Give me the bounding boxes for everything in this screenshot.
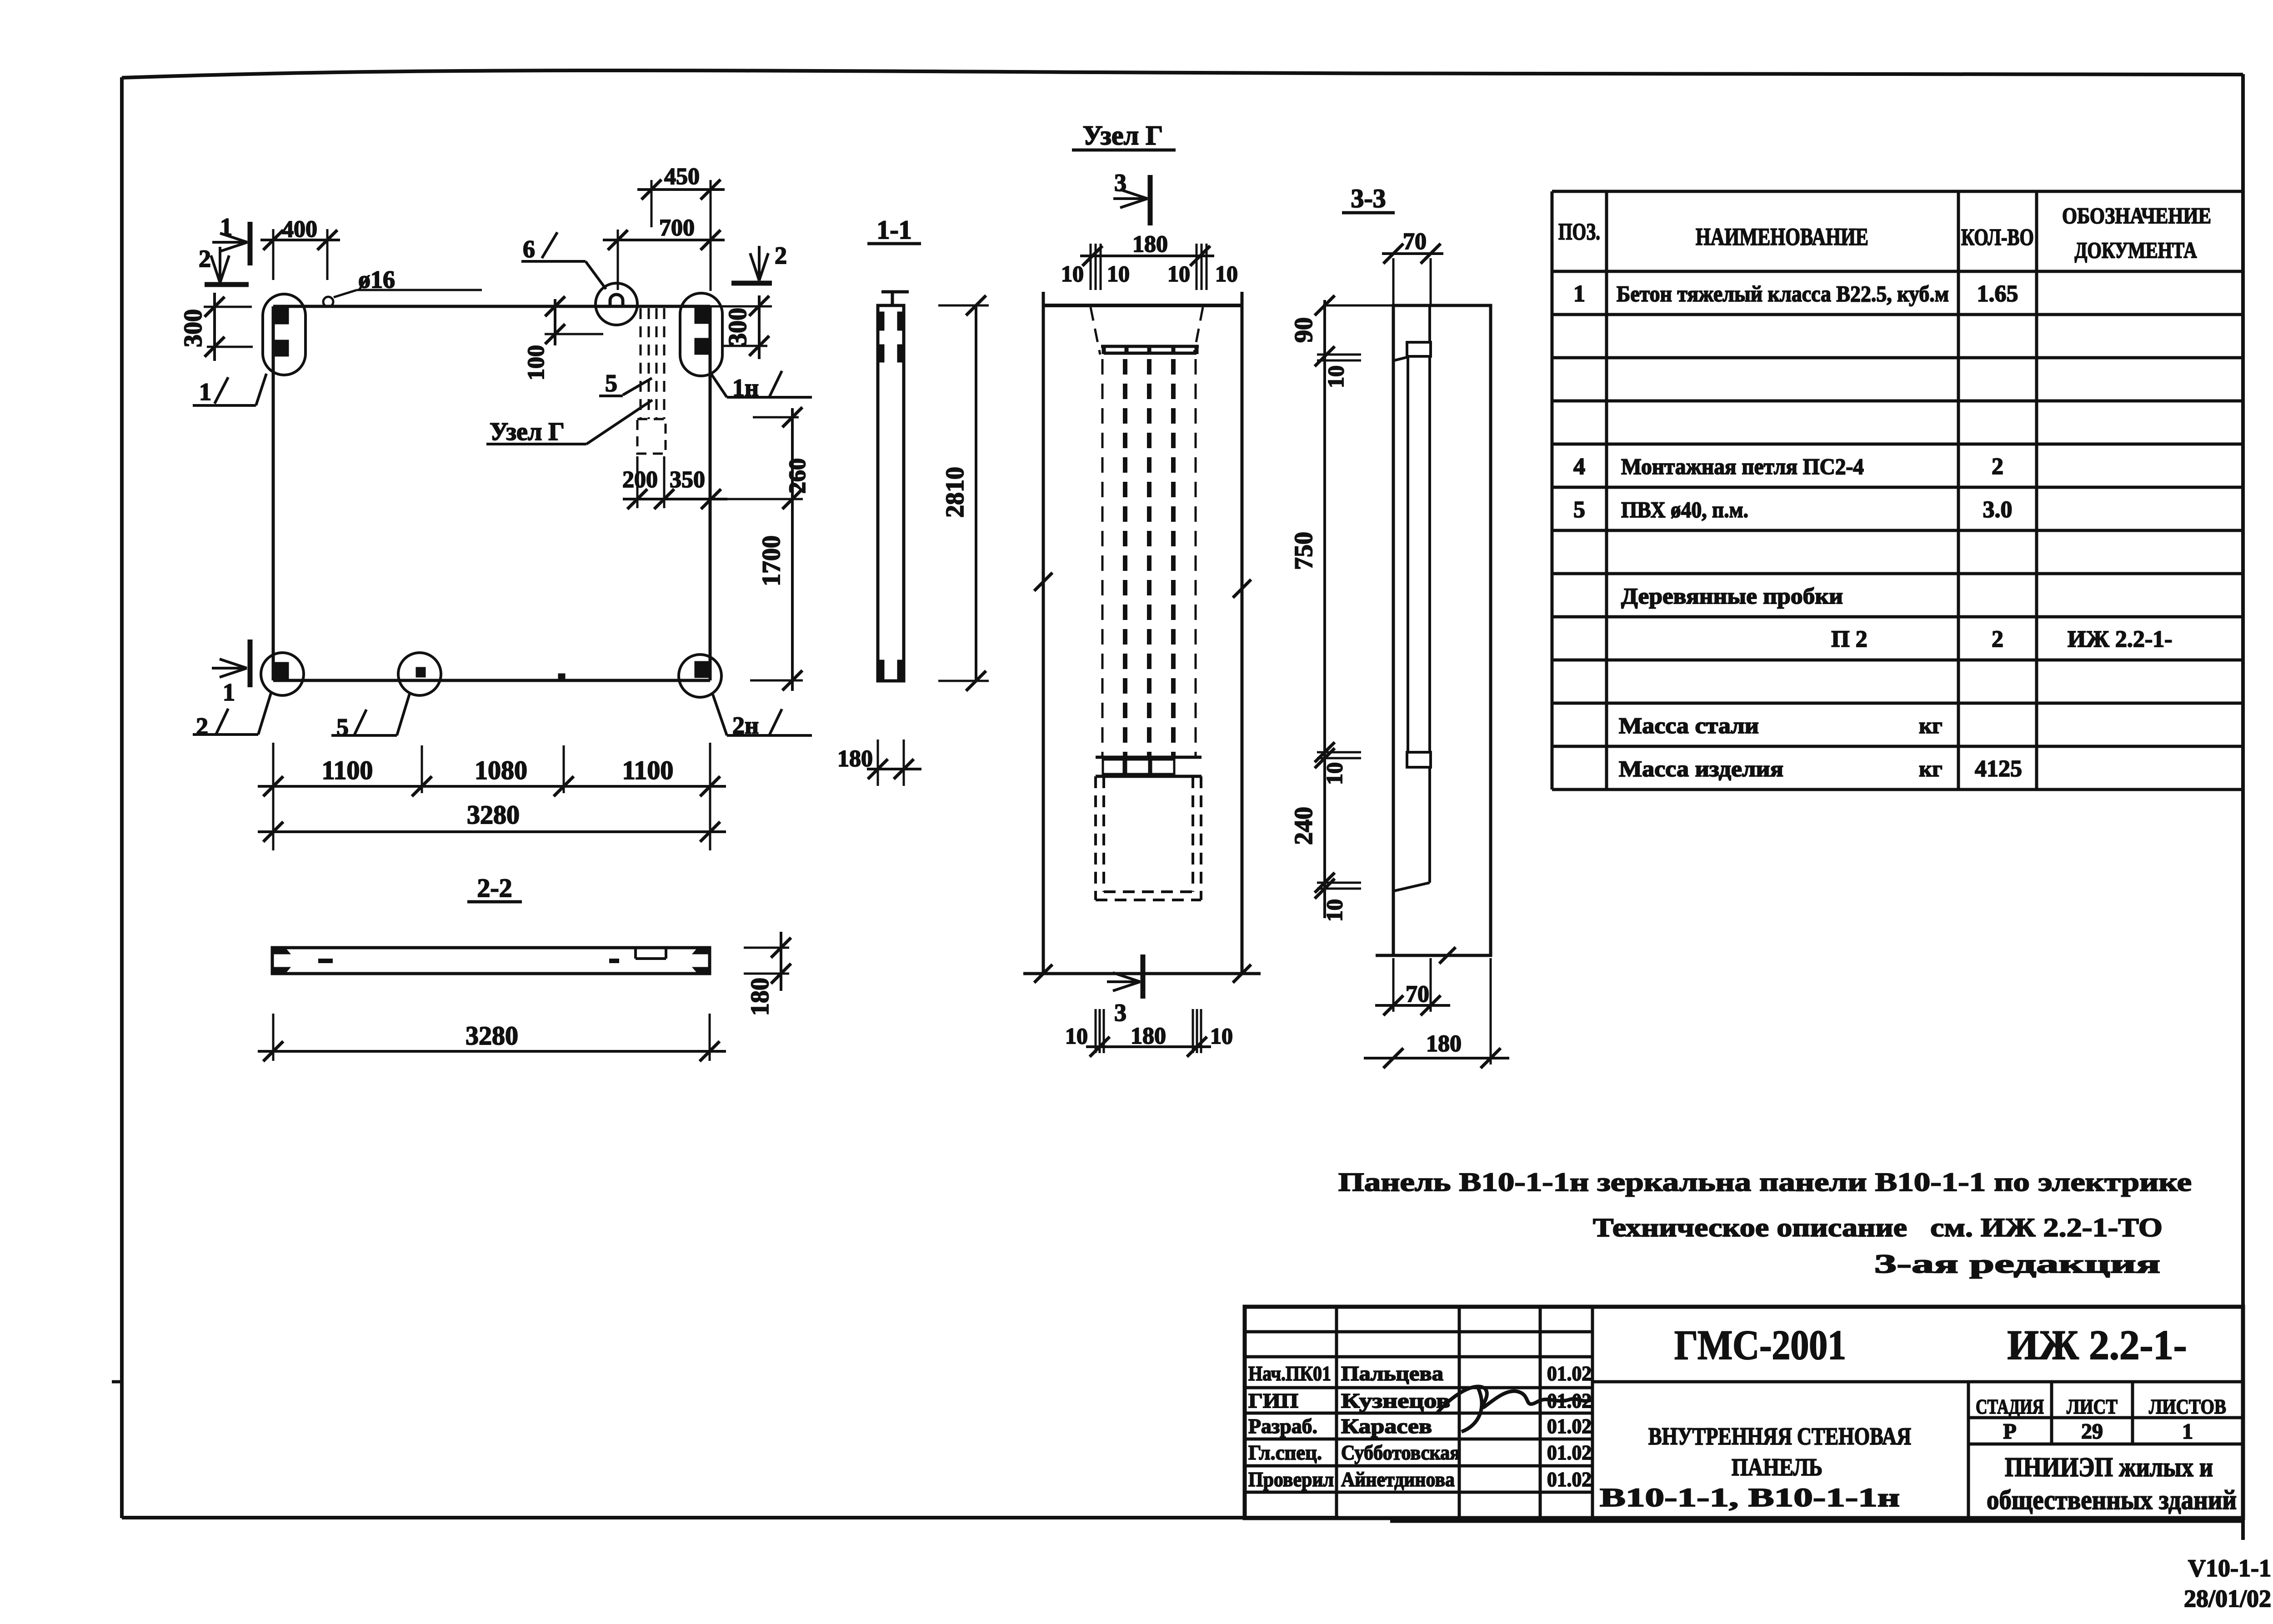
svg-text:Субботовская: Субботовская xyxy=(1341,1441,1460,1464)
svg-text:2: 2 xyxy=(199,245,211,272)
svg-text:750: 750 xyxy=(1290,532,1318,570)
svg-text:3-3: 3-3 xyxy=(1351,184,1386,213)
svg-text:2: 2 xyxy=(1992,454,2003,480)
svg-text:Бетон тяжелый класса В22.5, ку: Бетон тяжелый класса В22.5, куб.м xyxy=(1617,281,1949,306)
svg-text:10: 10 xyxy=(1065,1023,1088,1049)
svg-text:240: 240 xyxy=(1290,807,1318,845)
svg-text:180: 180 xyxy=(837,746,873,772)
svg-text:Проверил: Проверил xyxy=(1248,1468,1334,1491)
svg-text:01.02: 01.02 xyxy=(1547,1468,1592,1491)
svg-text:260: 260 xyxy=(785,458,811,494)
svg-text:28/01/02: 28/01/02 xyxy=(2184,1585,2271,1612)
svg-text:4125: 4125 xyxy=(1975,756,2022,782)
svg-text:3.0: 3.0 xyxy=(1983,497,2013,523)
svg-text:180: 180 xyxy=(1131,1023,1166,1049)
svg-text:10: 10 xyxy=(1210,1023,1233,1049)
svg-text:1-1: 1-1 xyxy=(876,215,911,245)
svg-text:180: 180 xyxy=(746,978,774,1016)
svg-text:ЛИСТОВ: ЛИСТОВ xyxy=(2149,1395,2226,1418)
svg-text:1080: 1080 xyxy=(475,755,527,785)
svg-text:Карасев: Карасев xyxy=(1341,1414,1432,1438)
svg-text:6: 6 xyxy=(523,235,535,263)
svg-text:01.02: 01.02 xyxy=(1547,1414,1592,1438)
svg-text:ЛИСТ: ЛИСТ xyxy=(2067,1395,2118,1418)
svg-text:1700: 1700 xyxy=(757,535,786,586)
svg-text:01.02: 01.02 xyxy=(1547,1441,1592,1464)
svg-text:2-2: 2-2 xyxy=(477,873,512,903)
svg-text:1: 1 xyxy=(199,378,211,405)
svg-text:Техническое описание см. ИЖ: Техническое описание см. ИЖ 2.2-1-ТО xyxy=(1593,1213,2163,1242)
svg-text:ИЖ 2.2-1-: ИЖ 2.2-1- xyxy=(2068,626,2173,652)
svg-text:Р: Р xyxy=(2003,1419,2016,1444)
svg-text:кг: кг xyxy=(1919,713,1943,738)
svg-text:10: 10 xyxy=(1061,261,1084,286)
svg-text:1: 1 xyxy=(1573,281,1585,307)
svg-text:Узел Г: Узел Г xyxy=(1083,120,1163,150)
svg-text:1: 1 xyxy=(220,213,232,240)
svg-text:10: 10 xyxy=(1167,261,1190,286)
svg-text:10: 10 xyxy=(1215,261,1238,286)
svg-text:СТАДИЯ: СТАДИЯ xyxy=(1976,1395,2044,1418)
svg-text:450: 450 xyxy=(664,164,700,190)
svg-text:01.02: 01.02 xyxy=(1547,1362,1592,1385)
svg-text:Масса изделия: Масса изделия xyxy=(1619,756,1783,781)
svg-text:1: 1 xyxy=(223,679,235,706)
svg-text:10: 10 xyxy=(1322,762,1347,785)
svg-text:1100: 1100 xyxy=(622,755,674,785)
svg-text:ГИП: ГИП xyxy=(1248,1389,1298,1412)
svg-text:4: 4 xyxy=(1573,454,1585,480)
svg-text:300: 300 xyxy=(724,308,752,346)
svg-text:ВНУТРЕННЯЯ СТЕНОВАЯ: ВНУТРЕННЯЯ СТЕНОВАЯ xyxy=(1648,1423,1911,1450)
svg-text:ПАНЕЛЬ: ПАНЕЛЬ xyxy=(1732,1454,1822,1481)
svg-text:Нач.ПК01: Нач.ПК01 xyxy=(1248,1362,1331,1385)
svg-text:ПНИИЭП жилых и: ПНИИЭП жилых и xyxy=(2005,1452,2213,1482)
svg-text:ПВХ ø40, п.м.: ПВХ ø40, п.м. xyxy=(1621,497,1748,522)
svg-text:общественных зданий: общественных зданий xyxy=(1987,1485,2237,1515)
svg-text:5: 5 xyxy=(1573,497,1585,523)
svg-text:10: 10 xyxy=(1323,365,1348,388)
svg-text:10: 10 xyxy=(1107,261,1130,286)
svg-text:70: 70 xyxy=(1406,981,1429,1007)
svg-text:350: 350 xyxy=(670,467,705,493)
svg-text:ДОКУМЕНТА: ДОКУМЕНТА xyxy=(2075,237,2197,263)
svg-text:Гл.спец.: Гл.спец. xyxy=(1248,1441,1322,1464)
svg-text:29: 29 xyxy=(2081,1419,2103,1444)
svg-text:V10-1-1: V10-1-1 xyxy=(2188,1554,2271,1582)
svg-text:ø16: ø16 xyxy=(358,266,395,293)
svg-text:ГМС-2001: ГМС-2001 xyxy=(1674,1322,1846,1368)
svg-text:Кузнецов: Кузнецов xyxy=(1341,1389,1450,1412)
svg-text:1: 1 xyxy=(2182,1419,2193,1444)
svg-text:Разраб.: Разраб. xyxy=(1248,1414,1317,1438)
svg-text:5: 5 xyxy=(605,370,617,397)
svg-text:400: 400 xyxy=(282,216,317,242)
svg-text:ПОЗ.: ПОЗ. xyxy=(1558,219,1600,245)
svg-text:3280: 3280 xyxy=(466,1021,518,1050)
svg-text:П 2: П 2 xyxy=(1831,626,1867,652)
svg-text:180: 180 xyxy=(1426,1031,1462,1057)
svg-text:кг: кг xyxy=(1919,756,1943,781)
svg-text:2: 2 xyxy=(775,242,787,269)
svg-text:Айнетдинова: Айнетдинова xyxy=(1341,1468,1455,1491)
svg-text:КОЛ-ВО: КОЛ-ВО xyxy=(1961,225,2034,250)
svg-text:700: 700 xyxy=(659,215,695,241)
svg-text:1.65: 1.65 xyxy=(1977,281,2018,307)
svg-text:ИЖ 2.2-1-: ИЖ 2.2-1- xyxy=(2008,1322,2187,1368)
svg-text:300: 300 xyxy=(179,309,207,347)
svg-text:ОБОЗНАЧЕНИЕ: ОБОЗНАЧЕНИЕ xyxy=(2062,203,2211,228)
svg-text:3-ая редакция: 3-ая редакция xyxy=(1874,1249,2160,1279)
svg-text:Узел Г: Узел Г xyxy=(490,418,565,446)
svg-text:3: 3 xyxy=(1114,999,1126,1026)
svg-text:Деревянные пробки: Деревянные пробки xyxy=(1621,583,1843,609)
svg-text:Масса стали: Масса стали xyxy=(1619,713,1759,738)
svg-text:3: 3 xyxy=(1114,169,1126,196)
svg-text:В10-1-1, В10-1-1н: В10-1-1, В10-1-1н xyxy=(1600,1483,1900,1512)
svg-text:70: 70 xyxy=(1403,229,1427,255)
svg-text:НАИМЕНОВАНИЕ: НАИМЕНОВАНИЕ xyxy=(1696,223,1868,250)
svg-text:100: 100 xyxy=(523,345,549,380)
svg-text:2: 2 xyxy=(1992,626,2003,652)
svg-text:10: 10 xyxy=(1322,899,1347,922)
svg-text:Панель В10-1-1н зеркальна пане: Панель В10-1-1н зеркальна панели В10-1-1… xyxy=(1338,1167,2192,1197)
svg-text:3280: 3280 xyxy=(467,800,520,829)
svg-text:2810: 2810 xyxy=(941,467,969,518)
svg-text:Монтажная петля ПС2-4: Монтажная петля ПС2-4 xyxy=(1621,454,1864,479)
svg-text:1100: 1100 xyxy=(322,755,373,785)
svg-text:90: 90 xyxy=(1290,317,1318,343)
svg-text:Пальцева: Пальцева xyxy=(1341,1362,1443,1385)
svg-text:200: 200 xyxy=(622,467,658,493)
svg-text:180: 180 xyxy=(1132,231,1168,257)
